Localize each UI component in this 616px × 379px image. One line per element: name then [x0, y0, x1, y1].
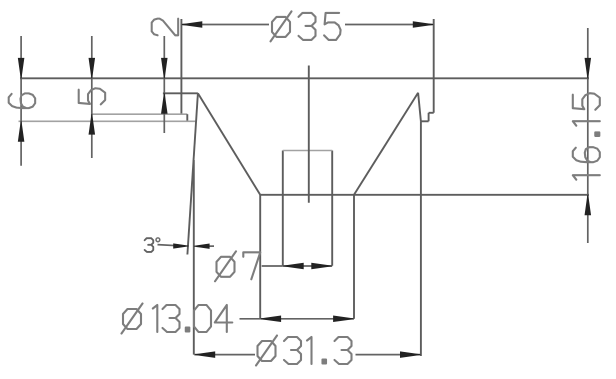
text Phi35 — [271, 11, 341, 41]
arrowhead 3deg right-pointing — [174, 244, 189, 248]
left step ledge 5-depth line — [92, 113, 188, 115]
Phi31.3 right extension line — [420, 121, 422, 356]
left cone surface — [198, 93, 260, 195]
dimension line 2 — [163, 36, 165, 133]
dimension line Phi13.04 span — [260, 318, 354, 320]
Phi13.04 right extension line — [353, 195, 355, 319]
text 16.15 (rotated) — [573, 93, 600, 180]
arrowhead Phi35 left — [182, 22, 202, 28]
Phi31.3 left extension / 3deg reference vertical — [193, 160, 195, 355]
text 6 (rotated) — [9, 93, 35, 108]
dimension line Phi35 left segment — [181, 24, 269, 26]
text 3deg label — [145, 238, 160, 252]
arrowhead 2 upper — [162, 58, 168, 78]
right tilted wall 3deg — [418, 93, 421, 122]
center hole right wall (Phi7 extension) — [331, 151, 333, 266]
dimension 3deg tail line — [197, 245, 215, 247]
dimension line Phi7 leader — [262, 265, 283, 267]
dimension line 6 — [20, 36, 22, 166]
right step ledge — [429, 112, 434, 114]
Phi13.04 left extension line — [259, 195, 261, 319]
dimension line Phi13.04 leader — [240, 318, 261, 320]
bottom surface line — [260, 194, 589, 196]
arrowhead 16.15 lower — [585, 195, 591, 215]
right counterbore wall (Phi35 extension) — [433, 19, 435, 113]
text Phi13.04 — [122, 304, 233, 334]
dimension 3deg leader line — [158, 245, 180, 246]
arrowhead 6 lower — [18, 121, 24, 141]
center hole left wall (Phi7 extension) — [282, 151, 284, 266]
left counterbore wall (Phi35 extension) — [180, 19, 182, 114]
left tilted wall 3deg line — [187, 93, 198, 254]
dimension line Phi35 right segment — [345, 24, 434, 26]
arrowhead Phi35 right — [413, 22, 433, 28]
left recess bottom 6-depth line — [19, 120, 197, 122]
text 2 (rotated) — [152, 19, 178, 36]
arrowhead 16.15 upper — [585, 58, 591, 78]
arrowhead 5 lower — [89, 114, 95, 134]
arrowhead 6 upper — [18, 58, 24, 78]
arrowhead Phi13.04 right — [334, 316, 354, 322]
arrowhead Phi13.04 left — [261, 316, 281, 322]
dimension line Phi7 span — [283, 265, 332, 267]
vertical centerline — [308, 66, 310, 203]
right cone surface — [354, 93, 418, 195]
arrowhead 2 lower — [162, 93, 168, 113]
right recess bottom — [421, 120, 429, 122]
arrowhead Phi31.3 right — [400, 352, 420, 358]
right step riser — [428, 113, 430, 122]
text Phi31.3 — [256, 336, 352, 366]
left step riser — [186, 114, 188, 121]
dimension line 5 — [91, 36, 93, 158]
text 5 (rotated) — [79, 88, 105, 104]
arrowhead 3deg left-pointing — [194, 244, 209, 248]
dimension line Phi31.3 left segment — [194, 354, 255, 356]
dimension line Phi31.3 right segment — [356, 354, 421, 356]
arrowhead Phi31.3 left — [195, 352, 215, 358]
left rim top 2-depth line — [163, 92, 198, 94]
arrowhead Phi7 right — [312, 263, 332, 269]
arrowhead 5 upper — [89, 58, 95, 78]
dimension line 16.15 — [587, 28, 589, 243]
center hole top line — [283, 150, 332, 152]
text Phi7 — [215, 251, 260, 281]
arrowhead Phi7 left — [283, 263, 303, 269]
top surface line — [20, 77, 589, 79]
